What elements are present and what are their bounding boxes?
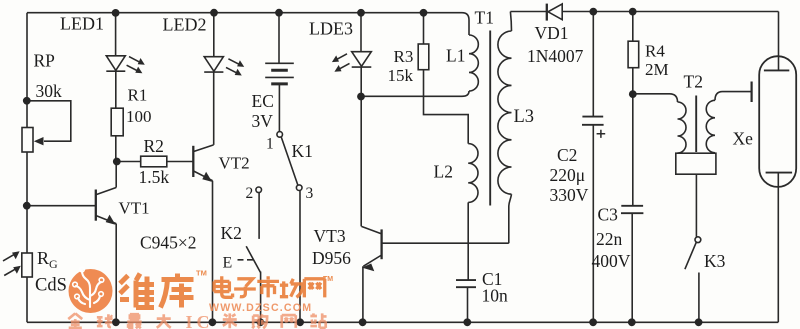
svg-text:1: 1	[266, 135, 274, 152]
svg-text:VD1: VD1	[535, 23, 569, 43]
svg-text:3V: 3V	[252, 111, 274, 131]
svg-text:I: I	[186, 312, 193, 329]
svg-text:CdS: CdS	[35, 276, 67, 296]
svg-text:Xe: Xe	[733, 129, 754, 149]
svg-text:2M: 2M	[645, 60, 669, 79]
svg-text:C945×2: C945×2	[140, 233, 197, 253]
svg-text:K1: K1	[292, 141, 313, 161]
svg-text:E: E	[223, 255, 233, 272]
svg-text:D956: D956	[312, 248, 351, 268]
svg-text:T1: T1	[475, 8, 494, 28]
svg-text:RG: RG	[37, 248, 58, 271]
svg-text:RP: RP	[34, 51, 56, 71]
svg-text:L2: L2	[434, 162, 453, 182]
svg-text:22n: 22n	[596, 229, 623, 249]
svg-text:EC: EC	[252, 91, 274, 111]
svg-text:L3: L3	[514, 107, 535, 127]
svg-text:WWW.DZSC.COM: WWW.DZSC.COM	[209, 302, 312, 314]
svg-text:10n: 10n	[482, 286, 509, 306]
svg-text:2: 2	[246, 185, 254, 202]
svg-text:LDE3: LDE3	[309, 19, 353, 39]
svg-text:15k: 15k	[388, 66, 414, 85]
svg-text:VT3: VT3	[314, 226, 346, 246]
svg-text:1N4007: 1N4007	[527, 46, 584, 66]
svg-text:TM: TM	[196, 269, 207, 278]
svg-text:L1: L1	[446, 46, 465, 66]
svg-text:330V: 330V	[550, 185, 589, 205]
svg-text:VT2: VT2	[219, 153, 250, 172]
svg-text:C: C	[197, 312, 210, 329]
svg-text:3: 3	[306, 185, 314, 202]
svg-text:1.5k: 1.5k	[139, 167, 170, 187]
svg-text:TM: TM	[323, 276, 333, 283]
svg-text:T2: T2	[684, 72, 703, 92]
svg-text:LED2: LED2	[163, 15, 207, 35]
svg-text:C2: C2	[557, 145, 577, 165]
svg-text:VT1: VT1	[119, 199, 150, 218]
svg-text:LED1: LED1	[60, 14, 104, 34]
svg-text:C3: C3	[598, 204, 619, 224]
svg-text:K3: K3	[704, 251, 726, 271]
svg-text:400V: 400V	[592, 251, 631, 271]
svg-text:K2: K2	[221, 223, 242, 243]
svg-text:R2: R2	[144, 136, 164, 156]
svg-text:R4: R4	[645, 41, 665, 60]
svg-text:R1: R1	[128, 86, 148, 105]
svg-text:100: 100	[126, 107, 152, 126]
svg-text:220μ: 220μ	[550, 165, 586, 185]
svg-text:30k: 30k	[36, 81, 63, 101]
svg-text:R3: R3	[394, 47, 414, 66]
